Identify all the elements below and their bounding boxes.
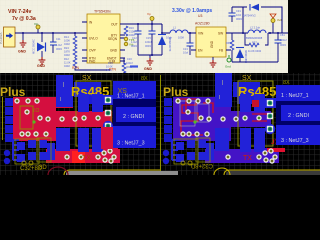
capacitor C31: [231, 7, 233, 13]
svg-text:1 : NetJ7_1: 1 : NetJ7_1: [281, 93, 309, 99]
svg-text:2 : GNDI: 2 : GNDI: [288, 113, 309, 119]
svg-text:0402: 0402: [106, 68, 112, 72]
comb connector footprint (right board): [172, 140, 178, 160]
inductor L2: [248, 30, 266, 33]
component blue pad rect top: [56, 75, 73, 107]
silkscreen outlines smd cluster: [15, 139, 39, 164]
svg-text:PAD: PAD: [89, 60, 96, 64]
svg-text:C16: C16: [127, 57, 132, 61]
svg-text:U3: U3: [198, 14, 202, 18]
svg-text:R14: R14: [64, 35, 69, 39]
via circles left edge (right board): [163, 150, 169, 156]
test point Vin: [37, 29, 39, 33]
svg-text:100nf: 100nf: [126, 61, 133, 65]
copper pour violet main plate: [173, 97, 231, 141]
svg-text:OUT: OUT: [111, 23, 118, 27]
svg-text:10uf: 10uf: [183, 51, 188, 55]
svg-text:RTN: RTN: [72, 66, 79, 70]
pads on arm (right board): [206, 116, 211, 121]
green dot (right board): [193, 120, 196, 123]
svg-text:R15: R15: [108, 61, 113, 65]
copper violet arm: [203, 111, 271, 127]
svg-text:Gnd: Gnd: [225, 65, 231, 69]
lower board outline right: [224, 170, 320, 175]
connector J7 teal pad 3 (right board): [265, 124, 275, 134]
svg-text:R16: R16: [129, 26, 134, 30]
capacitor C11: [52, 33, 54, 42]
via circles left edge: [4, 150, 10, 156]
svg-text:GND: GND: [144, 67, 152, 71]
svg-text:11.0K 0402: 11.0K 0402: [248, 49, 262, 53]
svg-text:3v3: 3v3: [277, 18, 282, 22]
component blue pad rect bottom (right board): [215, 128, 229, 151]
wire main input bus: [15, 32, 87, 34]
red traces on violet plate: [176, 99, 213, 135]
green dot: [32, 120, 35, 123]
resistor R35: [230, 40, 234, 50]
test point TP6: [124, 37, 128, 41]
blue rect behind Rs485: [74, 82, 101, 97]
svg-text:BAT54XV2: BAT54XV2: [243, 14, 256, 18]
svg-text:1.0uf: 1.0uf: [131, 40, 137, 44]
copper violet bottom band: [197, 141, 279, 163]
svg-text:BMRA000008: BMRA000008: [246, 36, 263, 40]
resistor R16: [124, 26, 128, 36]
pcb grid background: [0, 73, 320, 175]
svg-text:MCC SK54C: MCC SK54C: [32, 39, 36, 54]
svg-text:GND: GND: [210, 40, 214, 48]
tiny net text on blue rect (right board): [221, 80, 224, 85]
wire output rail right: [268, 32, 288, 34]
lower board gray body right: [226, 171, 320, 175]
svg-text:Plus: Plus: [163, 85, 189, 99]
svg-text:2 : GNDI: 2 : GNDI: [123, 114, 144, 120]
svg-text:10nf: 10nf: [236, 13, 241, 17]
pad row bottom plate: [19, 131, 24, 136]
svg-text:MBRC0868: MBRC0868: [244, 50, 247, 64]
svg-text:Vp: Vp: [147, 12, 151, 16]
node junction dots input bus: [22, 32, 24, 34]
svg-text:SX: SX: [117, 86, 127, 93]
silkscreen outlines smd cluster (right board): [174, 139, 198, 164]
tiny net text on blue rect: [62, 82, 65, 87]
pad net bar 2 (right board): [281, 105, 320, 121]
svg-text:Plus: Plus: [0, 85, 26, 99]
pad net bar 1 NetJ7_1: [113, 81, 156, 99]
svg-text:3 : NetJ7_3: 3 : NetJ7_3: [117, 141, 145, 147]
navy backing J7 pads: [113, 81, 156, 148]
pad row bottom plate (right board): [180, 131, 185, 136]
svg-text:R35: R35: [226, 42, 231, 45]
ground GND (input): [22, 33, 24, 40]
pad net bar 1 (right board): [276, 85, 320, 101]
smd cluster bottom left (right board): [176, 142, 184, 150]
test point Vp: [151, 20, 153, 24]
pads bottom band (right board): [208, 154, 213, 159]
wire SW loop: [226, 7, 282, 33]
pads cluster right bottom: [101, 150, 106, 155]
ground GND (mid): [149, 55, 151, 58]
svg-text:R37: R37: [252, 41, 257, 45]
red traces to J7 pad 2 (right board): [252, 114, 267, 121]
svg-text:1 : NetJ7_1: 1 : NetJ7_1: [117, 94, 145, 100]
pads bottom band: [47, 154, 52, 159]
power port Gnd (green): [227, 58, 231, 62]
component blue pad rect top (right board): [215, 73, 232, 107]
svg-text:C81: C81: [280, 33, 285, 37]
svg-text:100nf: 100nf: [145, 40, 152, 44]
connector J7 teal pad 3: [103, 121, 113, 131]
copper pour red main plate: [13, 97, 56, 141]
svg-text:1008: 1008: [178, 36, 184, 40]
svg-text:C13: C13: [183, 47, 188, 51]
svg-text:10.0K: 10.0K: [106, 65, 113, 69]
page background: [0, 0, 320, 175]
svg-text:C12: C12: [132, 36, 137, 40]
svg-text:3 : NetJ7_3: 3 : NetJ7_3: [281, 138, 309, 144]
svg-text:AOZ1280: AOZ1280: [195, 22, 210, 26]
pads on arm: [45, 116, 50, 121]
capacitor C12: [137, 24, 139, 31]
test point 3v3: [272, 22, 274, 33]
connector J7 teal pad 1 (right board): [265, 98, 276, 108]
pads mid plate (right board): [185, 109, 190, 114]
svg-text:8D: 8D: [39, 165, 47, 171]
svg-text:GND: GND: [110, 49, 118, 53]
svg-text:VIN 7-24v: VIN 7-24v: [8, 9, 31, 15]
edge connector pads (right board): [164, 98, 172, 106]
svg-text:210K: 210K: [129, 30, 135, 34]
pad row top plate: [14, 98, 19, 103]
diode D7 vertical: [236, 47, 244, 49]
svg-text:0402: 0402: [64, 64, 70, 68]
connector J7 teal pad 2: [105, 110, 111, 116]
mounting hole arc dark red: [48, 167, 68, 175]
svg-text:0402: 0402: [64, 42, 70, 46]
silkscreen component box (right board): [238, 81, 273, 146]
component blue pads inside box (right board): [240, 94, 251, 112]
blue rect behind Rs485 (right board): [233, 82, 260, 97]
svg-text:7v @ 0.3a: 7v @ 0.3a: [12, 16, 36, 22]
bright red accent: [267, 148, 285, 152]
white component outlines on violet: [180, 101, 195, 126]
svg-text:3.30v @ 1.0amps: 3.30v @ 1.0amps: [172, 8, 212, 14]
svg-text:0402: 0402: [64, 53, 70, 57]
svg-text:EN: EN: [198, 49, 203, 53]
svg-text:VIN: VIN: [198, 32, 204, 36]
bright red square: [72, 151, 85, 163]
via pad small (right board): [252, 100, 257, 105]
svg-text:D7: D7: [32, 106, 39, 112]
silkscreen board edge left (right board): [160, 75, 162, 175]
silkscreen board edge left: [2, 97, 4, 140]
lower board gray body left: [66, 171, 178, 175]
svg-text:R24: R24: [64, 46, 69, 50]
inductor L1: [170, 30, 188, 33]
svg-text:C11: C11: [56, 37, 61, 41]
resistor R15: [120, 58, 124, 73]
svg-text:TX: TX: [82, 155, 91, 162]
capacitor C13: [189, 33, 191, 43]
resistor R37: [245, 33, 268, 45]
diode D6 BAT54XV2: [249, 4, 251, 11]
svg-text:R12: R12: [64, 57, 69, 61]
silk circles bottom cluster (right board): [181, 161, 185, 165]
green pads in box (right board): [242, 115, 247, 120]
svg-text:0603: 0603: [56, 47, 62, 51]
svg-text:GND: GND: [18, 50, 26, 54]
svg-text:L2 2.2uh: L2 2.2uh: [250, 26, 261, 30]
silkscreen D7 outline: [20, 106, 33, 129]
svg-text:PJ-202A: PJ-202A: [0, 32, 3, 44]
svg-text:187K: 187K: [64, 50, 70, 54]
wire U3 left: [190, 32, 191, 34]
svg-text:OVP: OVP: [89, 49, 96, 53]
wire output rail: [125, 23, 162, 25]
svg-text:1.0uf: 1.0uf: [56, 43, 62, 47]
pad net bar 3 (right board): [276, 125, 320, 145]
svg-text:SW: SW: [218, 32, 223, 36]
ground GND (U3): [212, 57, 214, 60]
svg-text:TX: TX: [243, 155, 252, 162]
comb connector footprint left edge: [13, 140, 19, 160]
svg-text:GND: GND: [37, 64, 45, 68]
svg-text:11.0K: 11.0K: [64, 61, 71, 65]
copper red arm with pads: [44, 111, 112, 127]
silk circles bottom cluster: [22, 161, 26, 165]
edge connector pads left (blue): [5, 98, 13, 106]
svg-text:C15: C15: [146, 36, 151, 40]
wire bottom rail right: [232, 61, 278, 63]
svg-text:100uf: 100uf: [280, 38, 287, 42]
copper red block right bottom: [100, 148, 118, 163]
svg-text:0603: 0603: [236, 17, 242, 21]
copper violet block right bottom: [259, 148, 277, 163]
diode D1: [41, 33, 43, 42]
ground GND (diode): [39, 57, 46, 64]
connector J7 teal pad 1: [103, 95, 114, 105]
component blue pad rect bottom: [56, 128, 70, 151]
green pads in relay box: [81, 115, 86, 120]
navy backing J7 pads (right board): [276, 85, 320, 145]
sheet background: [0, 0, 288, 73]
pads cluster right bottom (right board): [262, 150, 267, 155]
svg-text:FB: FB: [219, 49, 223, 53]
svg-text:100K: 100K: [64, 39, 70, 43]
capacitor C15: [151, 24, 153, 31]
smd cluster bottom left blue pads: [17, 142, 25, 150]
svg-text:TPS5430x: TPS5430x: [94, 10, 111, 14]
silkscreen component box (relay): [76, 81, 111, 146]
wire to inductor: [162, 24, 170, 33]
mounting hole arc yellow (right): [214, 168, 230, 175]
svg-text:0603: 0603: [145, 44, 151, 48]
pad net bar 2 GNDI: [116, 107, 156, 122]
svg-text:Vin: Vin: [34, 22, 39, 26]
svg-text:UVLO: UVLO: [89, 37, 98, 41]
svg-text:0603: 0603: [280, 43, 286, 47]
wire gnd rail mid: [138, 54, 162, 56]
component blue pads inside box: [78, 94, 89, 112]
svg-text:C31: C31: [236, 9, 241, 13]
svg-text:SEQN: SEQN: [108, 37, 118, 41]
pads mid plate: [24, 109, 29, 114]
copper red bottom band: [38, 141, 120, 163]
lower board outline left: [64, 170, 160, 175]
pad row top plate (right board): [175, 98, 180, 103]
pad net bar 3 NetJ7_3: [113, 126, 156, 148]
diode D2: [158, 34, 166, 36]
svg-text:C32+8D: C32+8D: [190, 162, 213, 168]
svg-text:10uh: 10uh: [166, 36, 172, 40]
svg-text:0603: 0603: [131, 44, 137, 48]
connector J7 teal pad 2 (right board): [267, 113, 273, 119]
capacitor C81: [277, 33, 279, 40]
red column under J7 pads: [101, 127, 114, 149]
